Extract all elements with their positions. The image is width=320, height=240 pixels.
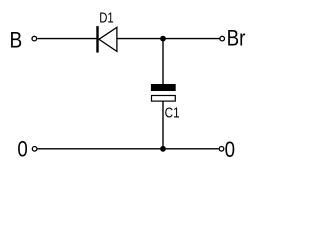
wire from junction node down to capacitor C1 positive plate	[162, 39, 164, 85]
wire from terminal 0 (left) to bottom junction	[38, 148, 164, 150]
svg-text:0: 0	[17, 138, 27, 162]
svg-text:0: 0	[225, 139, 235, 163]
svg-text:C1: C1	[165, 104, 180, 120]
terminal Br pin circle	[220, 36, 225, 41]
capacitor C1 negative plate (hollow)	[152, 96, 176, 102]
wire from terminal B to diode D1 anode	[37, 38, 96, 40]
junction node dot (bottom, net 0)	[160, 146, 166, 152]
svg-text:D1: D1	[99, 9, 113, 26]
terminal 0 (bottom left) pin circle	[32, 147, 37, 152]
diode D1 cathode bar	[96, 26, 98, 52]
wire from capacitor C1 negative plate down to bottom junction	[162, 102, 164, 149]
junction node dot (top, net Br)	[160, 36, 166, 42]
wire from junction node to terminal Br	[163, 38, 220, 40]
svg-text:Br: Br	[227, 26, 246, 51]
capacitor C1 positive plate (filled)	[151, 84, 176, 91]
svg-text:B: B	[10, 28, 23, 53]
wire from bottom junction to terminal 0 (right)	[163, 148, 219, 150]
diode D1 triangle	[99, 27, 117, 51]
terminal B pin circle	[32, 36, 37, 41]
wire from diode D1 to junction node	[117, 38, 163, 40]
terminal 0 (bottom right) pin circle	[219, 147, 224, 152]
